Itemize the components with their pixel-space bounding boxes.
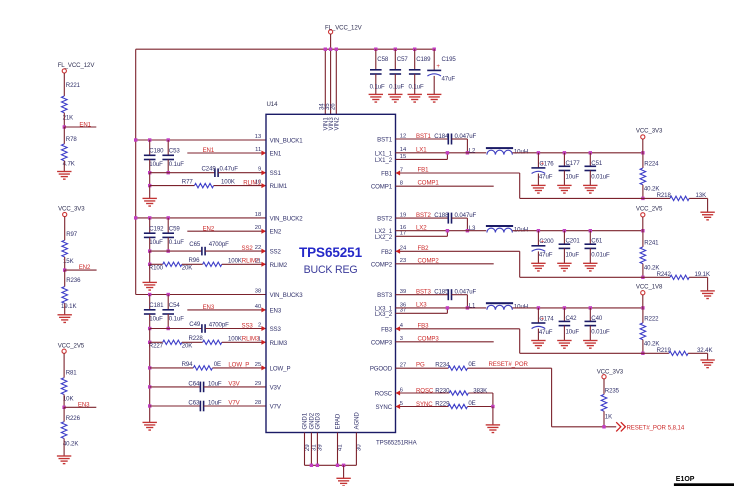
svg-text:1: 1: [258, 336, 261, 342]
svg-text:LX1: LX1: [416, 147, 427, 154]
wire RESET#_POR routing: [551, 368, 553, 427]
resistor R241 40.2K: [642, 231, 644, 247]
wire SYNC: [396, 406, 449, 408]
wire left vertical 12V bus: [135, 49, 137, 294]
wire: [149, 237, 151, 251]
svg-text:COMP2: COMP2: [418, 257, 440, 264]
svg-text:R94: R94: [182, 361, 194, 368]
svg-text:VCC_2V5: VCC_2V5: [636, 206, 663, 213]
svg-text:L2: L2: [469, 147, 476, 154]
wire RLIM2: [150, 263, 163, 265]
svg-text:FB1: FB1: [381, 171, 393, 178]
wire V3V: [150, 386, 201, 388]
svg-text:C184: C184: [434, 133, 449, 140]
svg-text:R236: R236: [66, 277, 81, 284]
wire: [63, 73, 65, 96]
svg-text:EN1: EN1: [270, 151, 282, 158]
ground: [143, 198, 157, 206]
wire: [63, 353, 65, 377]
svg-text:+: +: [436, 63, 440, 70]
capacitor C192 10uF: [149, 218, 151, 233]
svg-text:10uF: 10uF: [149, 161, 163, 168]
wire SS1: [150, 172, 215, 174]
svg-text:RESET#_POR: RESET#_POR: [627, 424, 667, 431]
svg-text:21: 21: [255, 258, 261, 264]
svg-text:VCC_2V5: VCC_2V5: [58, 343, 85, 350]
svg-text:VCC_3V3: VCC_3V3: [597, 368, 624, 375]
capacitor C195 47uF: [433, 48, 436, 51]
svg-text:R218: R218: [657, 192, 672, 199]
capacitor C189 0.1uF: [413, 48, 416, 51]
capacitor C54 0.1uF: [167, 295, 169, 310]
svg-text:28: 28: [255, 400, 261, 406]
svg-text:47uF: 47uF: [539, 252, 553, 259]
svg-text:18: 18: [255, 212, 261, 218]
svg-text:U14: U14: [267, 101, 279, 108]
svg-text:EN3: EN3: [203, 304, 215, 311]
wire output node: [512, 307, 643, 309]
wire GND3 pin stub: [316, 433, 318, 466]
svg-text:V7V: V7V: [228, 400, 240, 407]
svg-text:0E: 0E: [468, 361, 475, 368]
svg-text:VIN_BUCK1: VIN_BUCK1: [270, 138, 304, 145]
svg-text:R96: R96: [189, 257, 201, 264]
svg-text:C200: C200: [539, 238, 554, 245]
node FB divider junction: [641, 197, 644, 200]
svg-text:VCC_3V3: VCC_3V3: [636, 128, 663, 135]
wire FB1 feedback loop: [396, 172, 520, 174]
svg-text:COMP1: COMP1: [371, 184, 393, 191]
capacitor C176 47uF: [537, 153, 539, 168]
wire to ground: [707, 198, 709, 212]
svg-text:40.2K: 40.2K: [63, 441, 78, 448]
svg-text:R230: R230: [435, 387, 450, 394]
capacitor C53 0.1uF: [167, 140, 169, 155]
wire EN1: [187, 152, 266, 154]
resistor R242 19.1K: [643, 276, 670, 278]
svg-text:LOW_P: LOW_P: [228, 361, 249, 368]
wire RLIM1: [150, 185, 195, 187]
svg-text:10uH: 10uH: [514, 304, 528, 311]
wire: [149, 186, 151, 199]
wire LX_2 pin join: [396, 312, 448, 314]
svg-text:VIN_BUCK2: VIN_BUCK2: [270, 215, 304, 222]
wire: [149, 329, 151, 343]
svg-text:R228: R228: [189, 335, 204, 342]
wire EN3: [187, 309, 266, 311]
svg-text:LX3_2: LX3_2: [375, 311, 393, 318]
wire: [64, 217, 66, 241]
svg-text:EN1: EN1: [203, 147, 215, 154]
svg-text:10uF: 10uF: [149, 239, 163, 246]
svg-text:LX3: LX3: [416, 302, 427, 309]
svg-text:20K: 20K: [182, 264, 193, 271]
svg-text:RLIM3: RLIM3: [270, 340, 288, 347]
capacitor C63 10uF: [200, 401, 203, 412]
node VIN3 wire: [330, 49, 332, 114]
svg-text:R224: R224: [644, 161, 659, 168]
svg-text:R226: R226: [66, 415, 81, 422]
ground under C58: [369, 94, 383, 102]
svg-text:FL_VCC_12V: FL_VCC_12V: [58, 62, 96, 69]
svg-text:FB3: FB3: [418, 322, 430, 329]
title block border bar: [674, 483, 734, 486]
wire FB2 feedback loop: [396, 250, 520, 252]
capacitor C61 0.01uF: [589, 231, 591, 245]
svg-text:C176: C176: [539, 160, 554, 167]
wire LX node: [396, 230, 487, 232]
svg-text:10uF: 10uF: [208, 399, 222, 406]
svg-text:40: 40: [255, 304, 261, 310]
wire GND2 pin stub: [310, 433, 312, 466]
svg-text:C249: C249: [202, 166, 217, 173]
svg-text:R78: R78: [66, 136, 78, 143]
svg-text:C65: C65: [189, 241, 201, 248]
capacitor C57 0.1uF: [394, 48, 397, 51]
svg-text:47uF: 47uF: [539, 329, 553, 336]
wire to ground: [707, 353, 709, 360]
svg-text:LX2_2: LX2_2: [375, 234, 393, 241]
capacitor C249 0.47uF: [215, 168, 218, 177]
ground under C174: [531, 341, 545, 349]
wire SS3: [150, 328, 202, 330]
svg-text:R234: R234: [435, 361, 450, 368]
svg-text:L1: L1: [469, 302, 476, 309]
ground under C189: [408, 94, 422, 102]
svg-text:COMP3: COMP3: [371, 339, 393, 346]
svg-text:10uH: 10uH: [514, 226, 528, 233]
svg-text:C177: C177: [566, 160, 581, 167]
wire SS2: [150, 250, 202, 252]
op-amp U14 TPS65251 IC body: [266, 114, 396, 432]
ground (channel-3 / LDO column): [143, 422, 157, 430]
svg-text:BST3: BST3: [416, 289, 432, 296]
wire AGND pin stub: [355, 433, 357, 466]
svg-text:SS2: SS2: [242, 245, 254, 252]
wire output node: [512, 230, 643, 232]
capacitor C174 47uF: [537, 308, 539, 323]
wire: [149, 173, 151, 186]
ground under C42: [557, 341, 571, 349]
wire COMP1 stub: [396, 185, 494, 187]
wire LX_2 pin join: [396, 158, 448, 160]
wire LX_2 pin join: [396, 235, 448, 237]
svg-text:VCC_3V3: VCC_3V3: [58, 206, 85, 213]
wire output node: [512, 152, 643, 154]
svg-text:LOW_P: LOW_P: [270, 365, 291, 372]
svg-text:VIN_BUCK3: VIN_BUCK3: [270, 292, 304, 299]
ground: [58, 315, 72, 323]
resistor R222 40.2K: [642, 308, 644, 323]
svg-text:BST1: BST1: [416, 133, 432, 140]
svg-text:TPS65251: TPS65251: [299, 245, 363, 260]
wire PGOOD: [396, 367, 449, 369]
wire VIN_BUCK3 input: [136, 294, 266, 296]
svg-text:10uH: 10uH: [514, 149, 528, 156]
svg-text:C40: C40: [591, 315, 603, 322]
capacitor C58 0.1uF: [374, 48, 377, 51]
svg-text:C64: C64: [188, 380, 200, 387]
svg-text:COMP2: COMP2: [371, 261, 393, 268]
wire VIN_BUCK2 input: [136, 217, 266, 219]
wire: [64, 257, 66, 270]
svg-text:29: 29: [255, 381, 261, 387]
svg-text:VCC_1V8: VCC_1V8: [636, 284, 663, 291]
wire: [149, 264, 151, 282]
wire RLIM3: [150, 341, 163, 343]
capacitor C51 0.01uF: [589, 153, 591, 167]
svg-text:EN1: EN1: [79, 121, 91, 128]
svg-text:COMP3: COMP3: [418, 335, 440, 342]
capacitor C181 10uF: [149, 295, 151, 310]
svg-text:V3V: V3V: [270, 384, 282, 391]
svg-text:100K: 100K: [221, 179, 235, 186]
svg-text:BST2: BST2: [377, 216, 393, 223]
svg-text:0.01uF: 0.01uF: [591, 174, 610, 181]
resistor R219 32.4K: [643, 352, 669, 354]
svg-text:C42: C42: [566, 315, 578, 322]
wire COMP2 stub: [396, 263, 494, 265]
wire EN2: [187, 230, 266, 232]
ground: [486, 425, 500, 433]
wire BST to LX: [466, 139, 468, 153]
node V3V row junction: [148, 385, 151, 388]
svg-text:SS2: SS2: [270, 249, 282, 256]
wire BST to LX: [466, 295, 468, 308]
svg-text:COMP1: COMP1: [418, 180, 440, 187]
svg-text:11: 11: [255, 147, 261, 153]
off-page connector RESET#_POR: [616, 422, 621, 431]
svg-text:TPS65251RHA: TPS65251RHA: [376, 440, 418, 447]
svg-text:100K: 100K: [228, 335, 242, 342]
capacitor C65 4700pF: [202, 247, 205, 256]
svg-text:V7V: V7V: [270, 404, 282, 411]
svg-text:0E: 0E: [214, 361, 221, 368]
wire LX node: [396, 152, 487, 154]
ground under C40: [583, 341, 597, 349]
svg-text:10uF: 10uF: [566, 174, 580, 181]
ground: [700, 212, 714, 220]
svg-text:22: 22: [255, 245, 261, 251]
svg-text:SS1: SS1: [270, 170, 282, 177]
capacitor C42 10uF: [563, 308, 565, 322]
wire FB3 feedback loop: [396, 328, 520, 330]
resistor R218 13K: [643, 197, 670, 199]
wire ground rail: [305, 464, 357, 466]
svg-text:EN2: EN2: [79, 264, 91, 271]
wire COMP3 stub: [396, 341, 494, 343]
wire: [492, 407, 494, 425]
svg-text:C54: C54: [169, 302, 181, 309]
ground: [57, 172, 71, 180]
svg-text:1K: 1K: [605, 413, 612, 420]
wire: [63, 395, 65, 408]
svg-text:C180: C180: [149, 147, 164, 154]
svg-text:SYNC: SYNC: [416, 401, 433, 408]
svg-text:RLIM2: RLIM2: [270, 262, 288, 269]
ground: [143, 282, 157, 290]
ground under C57: [388, 94, 402, 102]
svg-text:0.1uF: 0.1uF: [389, 83, 404, 90]
svg-text:10uF: 10uF: [149, 315, 163, 322]
ground: [57, 456, 71, 464]
svg-text:FB3: FB3: [381, 326, 393, 333]
wire BST2: [396, 217, 449, 219]
node FB divider junction: [641, 276, 644, 279]
svg-text:C192: C192: [149, 225, 164, 232]
wire EPAD pin stub: [337, 433, 339, 466]
svg-text:C59: C59: [169, 225, 181, 232]
svg-text:20K: 20K: [182, 342, 193, 349]
svg-text:R100: R100: [149, 265, 164, 272]
svg-text:0.47uF: 0.47uF: [220, 166, 239, 173]
resistor R224 40.2K: [642, 153, 644, 168]
svg-text:C181: C181: [149, 302, 164, 309]
wire: [149, 251, 151, 264]
svg-text:GND3: GND3: [315, 412, 322, 429]
wire LX node: [396, 307, 487, 309]
capacitor C49 4700pF: [202, 324, 205, 333]
svg-text:R229: R229: [435, 401, 450, 408]
svg-text:BST2: BST2: [416, 212, 432, 219]
svg-text:C49: C49: [189, 321, 201, 328]
svg-text:BST1: BST1: [377, 137, 393, 144]
capacitor C64 10uF: [200, 382, 203, 393]
wire: [149, 314, 151, 329]
svg-text:13: 13: [255, 134, 261, 140]
svg-text:R97: R97: [66, 231, 78, 238]
capacitor C201 10uF: [563, 231, 565, 245]
svg-text:C188: C188: [434, 212, 449, 219]
ground under C200: [531, 263, 545, 271]
wire top 12V bus: [136, 48, 435, 50]
svg-text:100K: 100K: [228, 257, 242, 264]
wire ROSC: [396, 392, 450, 394]
ground: [700, 291, 714, 299]
svg-text:RLIM1: RLIM1: [270, 183, 288, 190]
wire: [149, 342, 151, 422]
capacitor C40 0.01uF: [589, 308, 591, 322]
svg-text:EN2: EN2: [270, 229, 282, 236]
svg-text:25: 25: [255, 362, 261, 368]
svg-text:0.01uF: 0.01uF: [591, 251, 610, 258]
node EN3: [62, 406, 65, 409]
svg-text:9: 9: [258, 167, 261, 173]
wire BST to LX: [466, 218, 468, 231]
wire: [492, 393, 494, 407]
svg-text:R222: R222: [644, 315, 659, 322]
svg-text:C201: C201: [566, 238, 581, 245]
node FB divider junction: [641, 352, 644, 355]
node VIN2 wire: [335, 49, 337, 114]
node V7V row junction: [148, 404, 151, 407]
svg-text:R77: R77: [182, 179, 194, 186]
ground under C176: [531, 185, 545, 193]
svg-text:4700pF: 4700pF: [209, 241, 229, 248]
svg-text:C189: C189: [416, 56, 431, 63]
svg-text:EN3: EN3: [270, 307, 282, 314]
svg-text:BST3: BST3: [377, 292, 393, 299]
ground under C51: [583, 185, 597, 193]
capacitor C180 10uF: [149, 140, 151, 155]
svg-text:R221: R221: [66, 82, 81, 89]
svg-text:10uF: 10uF: [566, 251, 580, 258]
wire to ground: [707, 277, 709, 291]
node RESET#_POR junction: [602, 425, 605, 428]
svg-text:26: 26: [330, 103, 337, 110]
ground under C195: [427, 94, 441, 102]
wire LOW_P: [150, 367, 194, 369]
svg-text:ROSC: ROSC: [416, 388, 434, 395]
svg-text:C174: C174: [539, 315, 554, 322]
svg-text:EN2: EN2: [203, 225, 215, 232]
svg-text:VIN2: VIN2: [334, 117, 341, 131]
svg-text:47uF: 47uF: [539, 174, 553, 181]
svg-text:C53: C53: [169, 147, 181, 154]
ground: [700, 360, 714, 368]
svg-text:ROSC: ROSC: [375, 391, 393, 398]
svg-text:2: 2: [258, 323, 261, 329]
svg-text:AGND: AGND: [354, 412, 361, 430]
ground under C201: [557, 263, 571, 271]
wire V7V: [150, 405, 201, 407]
node LOW_P row junction: [148, 366, 151, 369]
svg-text:BUCK REG: BUCK REG: [304, 264, 358, 276]
svg-text:10uF: 10uF: [566, 329, 580, 336]
svg-text:R81: R81: [66, 370, 78, 377]
svg-text:L3: L3: [469, 225, 476, 232]
node: [491, 405, 494, 408]
node EN1: [63, 125, 66, 128]
svg-text:0.1uF: 0.1uF: [370, 83, 385, 90]
wire: [343, 465, 345, 478]
svg-text:RESET#_POR: RESET#_POR: [489, 361, 529, 368]
capacitor C59 0.1uF: [167, 218, 169, 233]
svg-text:38: 38: [255, 289, 261, 295]
svg-text:R242: R242: [657, 271, 672, 278]
svg-text:20: 20: [255, 225, 261, 231]
svg-text:4700pF: 4700pF: [209, 322, 229, 329]
svg-text:PGOOD: PGOOD: [370, 366, 393, 373]
svg-text:C61: C61: [591, 238, 603, 245]
svg-text:0.01uF: 0.01uF: [591, 329, 610, 336]
svg-text:EPAD: EPAD: [335, 413, 342, 429]
ground (IC): [336, 478, 350, 486]
svg-text:19.1K: 19.1K: [61, 303, 76, 310]
svg-text:0.1uF: 0.1uF: [409, 83, 424, 90]
wire: [149, 160, 151, 173]
node VIN1 wire: [324, 49, 326, 114]
wire VIN_BUCK1 input: [136, 139, 266, 141]
svg-text:47uF: 47uF: [442, 75, 456, 82]
svg-text:0.1uF: 0.1uF: [169, 239, 184, 246]
svg-text:FB2: FB2: [418, 245, 430, 252]
svg-text:PG: PG: [416, 362, 425, 369]
svg-text:LX1_2: LX1_2: [375, 157, 393, 164]
svg-text:FB2: FB2: [381, 249, 393, 256]
svg-text:SYNC: SYNC: [375, 404, 392, 411]
svg-text:5,8,14: 5,8,14: [668, 424, 685, 431]
svg-text:EN3: EN3: [78, 402, 90, 409]
svg-text:0.1uF: 0.1uF: [169, 161, 184, 168]
wire: [63, 113, 65, 127]
svg-text:10: 10: [255, 180, 261, 186]
svg-text:V3V: V3V: [228, 381, 240, 388]
capacitor C177 10uF: [563, 153, 565, 167]
svg-text:C57: C57: [397, 56, 409, 63]
ground under C61: [583, 263, 597, 271]
svg-text:R227: R227: [149, 343, 164, 350]
